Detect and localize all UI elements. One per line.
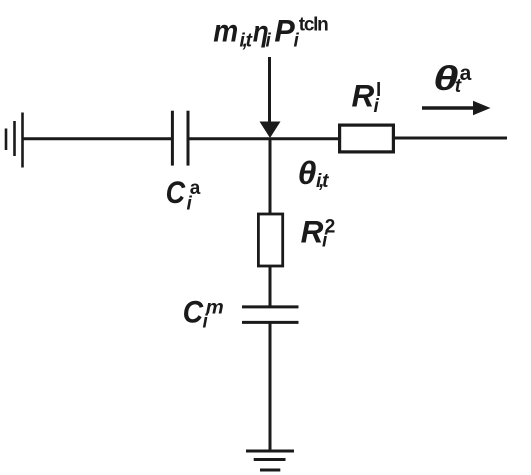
svg-text:a: a [190, 178, 201, 199]
svg-text:i: i [266, 31, 272, 52]
wire capacitor Cia to resistor Ri1 [190, 137, 339, 140]
svg-text:m: m [206, 297, 224, 318]
ground left [6, 113, 23, 168]
svg-text:C: C [166, 174, 187, 210]
capacitor Cim [242, 307, 299, 323]
svg-text:R: R [301, 214, 324, 250]
svg-text:a: a [460, 62, 472, 85]
svg-text:C: C [183, 294, 205, 330]
label Cim [183, 294, 224, 333]
wire resistor Ri1 to right end [395, 137, 507, 140]
label Cia [166, 174, 201, 214]
wire ground-left to capacitor Cia [23, 137, 172, 140]
svg-text:tcln: tcln [299, 15, 328, 36]
capacitor Cia [172, 111, 188, 166]
top label m-it eta-i P-tcln [213, 13, 328, 52]
label theta-it [298, 155, 330, 192]
svg-text:m: m [213, 13, 238, 49]
svg-text:R: R [352, 78, 375, 114]
input arrow into node [260, 57, 281, 138]
ground bottom [246, 451, 294, 470]
wire node to resistor Ri2 [269, 138, 272, 213]
wire resistor Ri2 to capacitor Cim [269, 266, 272, 307]
wire capacitor Cim to ground [269, 324, 272, 452]
label Ri2 [301, 214, 336, 252]
svg-text:θ: θ [298, 155, 317, 191]
svg-text:l: l [376, 80, 381, 101]
svg-text:2: 2 [325, 217, 336, 238]
resistor R2 [258, 214, 282, 266]
label theta-t-a [433, 60, 472, 98]
resistor R1 [340, 125, 394, 152]
arrow theta-t-a [422, 101, 491, 115]
label Ri1 [352, 78, 382, 117]
